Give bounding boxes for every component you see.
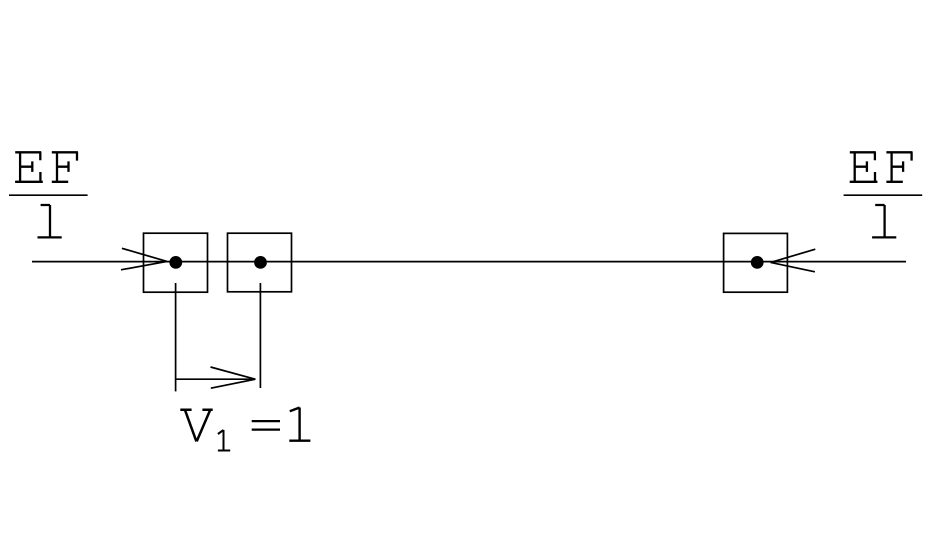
letter l [872, 205, 896, 237]
label V1 = 1 [180, 408, 310, 451]
dimension line [176, 378, 256, 380]
fraction bar [9, 194, 88, 196]
fraction bar [844, 194, 923, 196]
node box 3 [724, 233, 788, 292]
wire: main horizontal bar axis [32, 261, 906, 263]
node dot 3 [751, 256, 764, 269]
node dot 2 [254, 256, 267, 269]
label EF/l right [844, 152, 923, 237]
letter V [180, 410, 212, 442]
letter F [52, 152, 78, 182]
left force arrowhead [121, 248, 167, 269]
dimension arrowhead [211, 367, 256, 388]
node dot 1 [169, 256, 182, 269]
label EF/l left [9, 152, 88, 237]
letter F [886, 152, 912, 182]
extension line at node 2 [259, 283, 261, 388]
subscript 1 [218, 430, 230, 451]
right force arrowhead [771, 249, 816, 272]
letter E [850, 152, 878, 182]
extension line at node 1 [175, 283, 177, 391]
letter l [38, 205, 62, 237]
node box 1 [144, 233, 208, 292]
node box 2 [228, 233, 292, 292]
letter E [15, 152, 43, 182]
digit 1 [289, 408, 310, 441]
equals sign [252, 421, 280, 430]
